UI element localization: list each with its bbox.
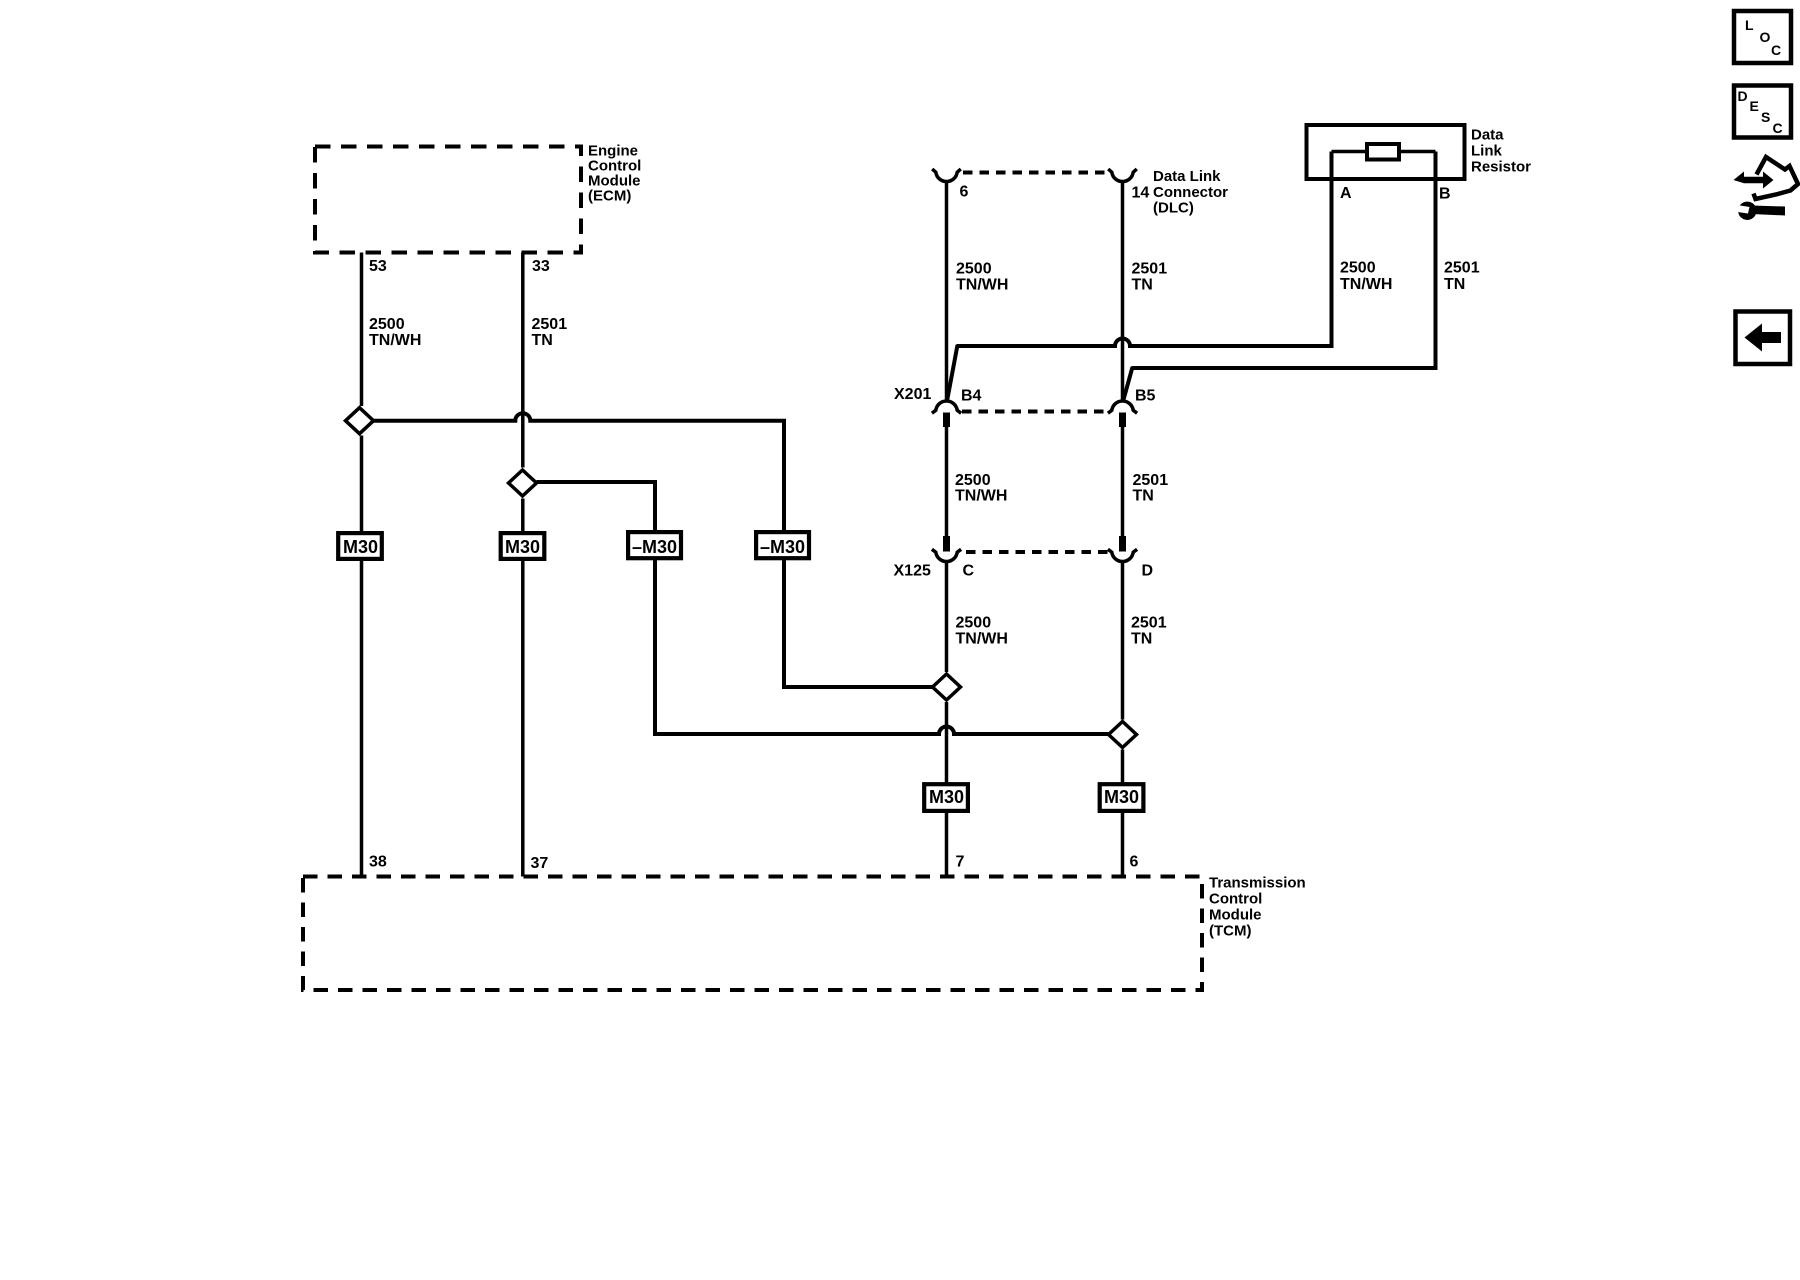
connector X201 dashed line [962, 410, 1108, 414]
ground M30 box (middle 2501) [1100, 784, 1144, 811]
svg-text:–M30: –M30 [632, 537, 677, 557]
wire 2500 TN/WH splice to M30 [360, 436, 364, 534]
svg-text:(DLC): (DLC) [1153, 200, 1194, 217]
Transmission Control Module TCM dashed box [303, 877, 1202, 991]
X201 terminal B4 pin [943, 413, 950, 428]
svg-text:37: 37 [531, 855, 549, 872]
Engine Control Module ECM dashed box [315, 147, 581, 253]
svg-text:2501: 2501 [532, 316, 568, 333]
Data Link Connector DLC dashed line [963, 171, 1108, 175]
wire 2501 TN splice to M30 [521, 499, 525, 534]
svg-text:Data Link: Data Link [1153, 168, 1221, 185]
ground M30 box (wire 2501 left) [501, 533, 545, 559]
svg-text:C: C [1771, 42, 1781, 58]
wire 2501 TN from DLC pin 14 to X201 B5 [1121, 183, 1125, 402]
splice S4 on middle 2501 wire [1109, 722, 1137, 748]
DLC cavity 14 connector cup [1108, 169, 1137, 182]
svg-text:B5: B5 [1135, 387, 1156, 404]
svg-text:2500: 2500 [956, 261, 992, 278]
svg-text:B4: B4 [961, 387, 982, 404]
svg-text:M30: M30 [505, 537, 540, 557]
svg-text:(TCM): (TCM) [1209, 923, 1251, 940]
svg-text:Module: Module [1209, 907, 1262, 924]
svg-text:Control: Control [1209, 891, 1262, 908]
svg-text:2500: 2500 [1340, 260, 1376, 277]
svg-text:2500: 2500 [955, 472, 991, 489]
wire 2500 TN/WH splice S3 to M30 [945, 702, 949, 783]
svg-text:D: D [1142, 563, 1154, 580]
wire 2501 TN from ECM pin 33 down to splice [521, 253, 525, 468]
X201 terminal B4 socket [932, 401, 961, 413]
svg-text:14: 14 [1132, 185, 1150, 202]
svg-text:Resistor: Resistor [1471, 159, 1531, 176]
svg-text:TN/WH: TN/WH [1340, 276, 1392, 293]
connector X125 dashed line [966, 550, 1108, 554]
svg-text:Link: Link [1471, 143, 1502, 160]
ground -M30 box (branch 2501) [628, 532, 681, 558]
icon DESC button [1734, 86, 1791, 138]
svg-text:2501: 2501 [1444, 260, 1480, 277]
wire 2501 TN X201 to X125 [1121, 427, 1125, 536]
wire bus from resistor pin B, diagonal into X201 B5 [1132, 152, 1436, 369]
svg-text:2500: 2500 [369, 316, 405, 333]
svg-text:C: C [963, 563, 975, 580]
svg-text:38: 38 [369, 854, 387, 871]
DLC cavity 6 connector cup [932, 169, 961, 182]
svg-text:(ECM): (ECM) [588, 188, 631, 205]
wire from -M30 (right) down and right to splice S3 [784, 559, 933, 688]
svg-text:TN/WH: TN/WH [956, 277, 1008, 294]
svg-text:Data: Data [1471, 127, 1504, 144]
svg-text:2501: 2501 [1133, 472, 1169, 489]
wire branch from splice S2 to -M30 [537, 482, 656, 532]
svg-text:TN/WH: TN/WH [369, 332, 421, 349]
X201 terminal B5 socket [1108, 401, 1137, 413]
wire 2501 TN splice S4 to M30 [1121, 750, 1125, 783]
wire 2500 TN/WH X125 to splice S3 [945, 563, 949, 672]
X201 terminal B5 pin [1119, 413, 1126, 428]
svg-text:6: 6 [960, 184, 969, 201]
splice S1 on 2500 wire [346, 408, 374, 434]
wire 2501 TN X125 to splice S4 [1121, 563, 1125, 720]
svg-text:M30: M30 [343, 537, 378, 557]
svg-text:TN: TN [1444, 276, 1465, 293]
resistor element body [1367, 144, 1399, 160]
svg-text:33: 33 [532, 258, 550, 275]
wire 2500 TN/WH from DLC pin 6 to X201 B4 [945, 183, 949, 402]
splice S2 on 2501 wire [509, 470, 537, 496]
svg-text:TN/WH: TN/WH [956, 631, 1008, 648]
wire from -M30 (left) down and right to splice S4, hop over 2500 wire [655, 559, 1109, 735]
ground -M30 box (branch 2500) [756, 532, 809, 558]
svg-text:C: C [1773, 120, 1783, 136]
X125 terminal D socket [1108, 549, 1137, 561]
svg-text:2501: 2501 [1132, 261, 1168, 278]
icon compare arrows with wrench [1734, 157, 1799, 220]
svg-text:2501: 2501 [1131, 615, 1167, 632]
data link resistor internal element line [1332, 150, 1436, 154]
svg-text:Transmission: Transmission [1209, 875, 1306, 892]
wire bus from resistor pin A, hop over 2501 wire, diagonal into X201 B4 [957, 152, 1332, 347]
svg-text:S: S [1761, 109, 1770, 125]
svg-text:7: 7 [956, 854, 965, 871]
svg-text:X201: X201 [894, 386, 931, 403]
svg-text:O: O [1760, 29, 1771, 45]
ground M30 box (wire 2500 left) [338, 533, 382, 559]
svg-text:B: B [1439, 185, 1451, 202]
X125 terminal C socket [932, 549, 961, 561]
svg-text:2500: 2500 [956, 615, 992, 632]
splice S3 on middle 2500 wire [933, 674, 961, 700]
icon back arrow button [1736, 312, 1791, 365]
svg-text:L: L [1745, 17, 1754, 33]
svg-text:TN: TN [1133, 488, 1154, 505]
wire branch from splice S1 to -M30, hop over 2501 wire [374, 413, 785, 532]
svg-text:Connector: Connector [1153, 184, 1228, 201]
svg-text:E: E [1750, 98, 1759, 114]
svg-text:6: 6 [1130, 854, 1139, 871]
svg-text:TN: TN [1132, 277, 1153, 294]
svg-text:M30: M30 [1104, 787, 1139, 807]
X125 terminal D pin [1119, 536, 1126, 552]
wire 2501 TN M30 to TCM pin 6 [1121, 812, 1125, 877]
X125 terminal C pin [943, 536, 950, 552]
svg-text:M30: M30 [929, 787, 964, 807]
wire 2500 TN/WH M30 to TCM pin 38 [360, 559, 364, 877]
svg-text:–M30: –M30 [760, 537, 805, 557]
ground M30 box (middle 2500) [924, 784, 968, 811]
svg-text:X125: X125 [894, 563, 931, 580]
icon LOC button [1734, 11, 1791, 63]
svg-text:D: D [1738, 88, 1748, 104]
svg-text:TN: TN [1131, 631, 1152, 648]
wire 2500 TN/WH X201 to X125 [945, 427, 949, 536]
wire 2500 TN/WH from ECM pin 53 down to splice [360, 253, 364, 407]
svg-text:A: A [1340, 185, 1352, 202]
Data Link Resistor box [1307, 125, 1465, 179]
svg-text:TN: TN [532, 332, 553, 349]
wire 2500 TN/WH M30 to TCM pin 7 [945, 812, 949, 877]
wire 2501 TN M30 to TCM pin 37 [521, 559, 525, 877]
svg-text:TN/WH: TN/WH [955, 488, 1007, 505]
svg-text:53: 53 [369, 258, 387, 275]
